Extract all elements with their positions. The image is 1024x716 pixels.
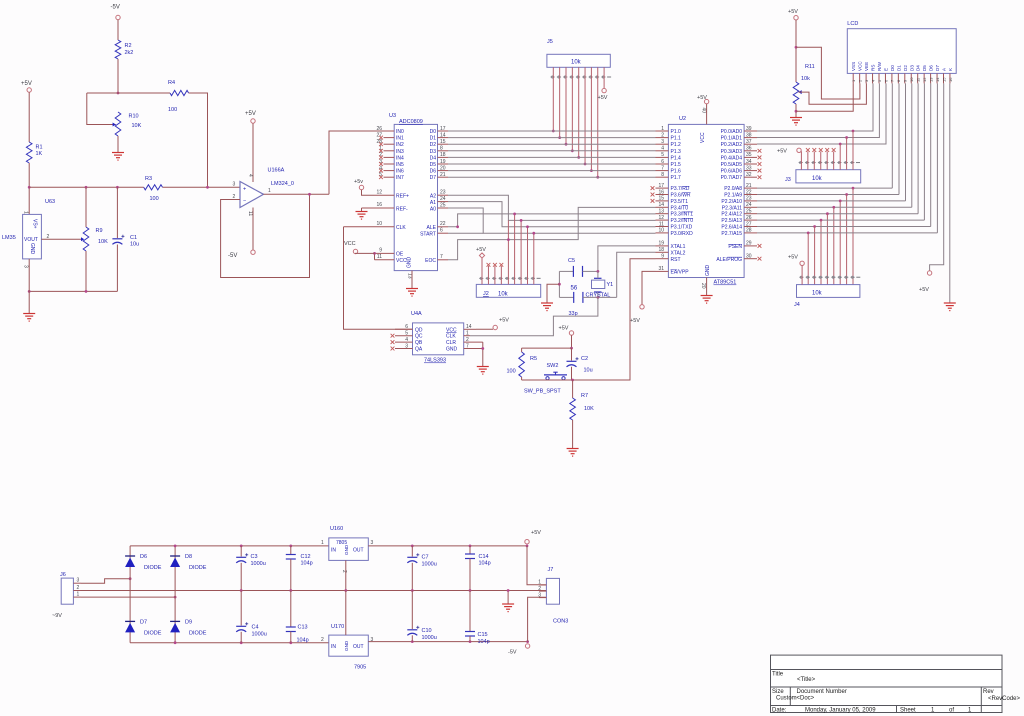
wire +5V to R1 xyxy=(28,92,30,142)
J3 pin6 no connect xyxy=(833,152,835,170)
ground at REF- xyxy=(361,208,363,211)
svg-text:1: 1 xyxy=(23,211,29,214)
svg-text:30: 30 xyxy=(746,254,752,260)
svg-text:CLK: CLK xyxy=(396,225,406,231)
IC U3 ADC0809 box xyxy=(394,124,437,270)
wire +5V rail xyxy=(368,545,527,547)
svg-text:C3: C3 xyxy=(251,554,258,560)
svg-text:D5: D5 xyxy=(430,162,437,168)
svg-text:J2: J2 xyxy=(483,291,489,297)
svg-text:D7: D7 xyxy=(430,175,437,181)
svg-text:8: 8 xyxy=(661,172,664,178)
svg-text:E: E xyxy=(883,68,888,71)
svg-text:P0.0/AD0: P0.0/AD0 xyxy=(721,129,743,135)
resistor network J4 box xyxy=(797,285,860,298)
U2 pin 19 XTAL1 xyxy=(656,245,669,247)
svg-text:VCC: VCC xyxy=(858,61,863,71)
svg-text:CLK: CLK xyxy=(446,334,456,340)
svg-text:+5V: +5V xyxy=(476,247,486,253)
svg-text:14: 14 xyxy=(440,132,446,138)
ADC pin 19 D5 xyxy=(438,163,449,165)
diode D6 xyxy=(125,558,135,568)
svg-text:15: 15 xyxy=(440,139,446,145)
U2 pin 6 P1.5 xyxy=(656,163,669,165)
svg-text:10k: 10k xyxy=(571,60,582,66)
svg-text:1: 1 xyxy=(77,592,80,598)
U2 pin 5 P1.4 xyxy=(656,156,669,158)
U2 pin 17 P3.7/RD xyxy=(656,187,669,189)
svg-text:A2: A2 xyxy=(430,194,436,200)
wire XTAL2 riser xyxy=(617,252,656,297)
ADC pin 9 OE / pin 11 VCC xyxy=(375,252,395,254)
svg-text:39: 39 xyxy=(746,126,752,132)
sensor U63 LM35 xyxy=(23,214,42,259)
ADC pin 8 D3 xyxy=(438,150,449,152)
svg-text:+5V: +5V xyxy=(788,9,798,15)
svg-text:15: 15 xyxy=(658,196,664,202)
svg-text:11: 11 xyxy=(247,211,253,216)
U4A pin 14 VCC xyxy=(464,328,476,330)
wire R11 wiper to LCD VEE pin3 xyxy=(799,83,867,104)
svg-text:U4A: U4A xyxy=(411,311,422,317)
wire J5 pin 2 to P1.1 row xyxy=(559,67,561,137)
svg-text:EA/VPP: EA/VPP xyxy=(671,270,690,276)
svg-text:+5V: +5V xyxy=(531,530,541,536)
svg-text:2: 2 xyxy=(77,585,80,591)
svg-text:D1: D1 xyxy=(896,65,901,71)
svg-text:1000u: 1000u xyxy=(252,632,267,638)
potentiometer R10 xyxy=(115,112,121,136)
U2 pin 33 P0.6/AD6 xyxy=(744,170,757,172)
svg-text:LCD: LCD xyxy=(847,21,858,27)
capacitor C4 xyxy=(240,591,242,626)
ADC pin 22 ALE xyxy=(438,226,449,228)
wire J3 pin7 riser to P0.2 xyxy=(839,144,841,170)
svg-text:RS: RS xyxy=(871,65,876,71)
J3 pin number marks xyxy=(799,162,803,164)
wire XTAL1 riser xyxy=(598,246,656,272)
wire op-amp output xyxy=(264,193,330,195)
svg-text:LM324_0: LM324_0 xyxy=(271,181,294,187)
svg-text:GND: GND xyxy=(446,347,458,353)
U2 pin 15 P3.5/T1 xyxy=(656,200,669,202)
wire R7 to ground xyxy=(572,420,574,448)
wire J5 pin 8 to P1.7 row xyxy=(597,67,599,177)
svg-text:VCC: VCC xyxy=(446,327,457,333)
wire P2.5 row to LCD D5 and J4 xyxy=(757,219,924,221)
svg-text:35: 35 xyxy=(746,152,752,158)
svg-text:17: 17 xyxy=(440,126,446,132)
U2 pin 18 XTAL2 xyxy=(656,251,669,253)
svg-text:10k: 10k xyxy=(498,292,509,298)
svg-text:14: 14 xyxy=(658,202,664,208)
diode D8 xyxy=(170,558,180,568)
svg-text:100: 100 xyxy=(150,196,159,202)
ADC pin 10 CLK xyxy=(344,226,395,228)
svg-text:D0: D0 xyxy=(890,65,895,71)
svg-text:29: 29 xyxy=(746,241,752,247)
svg-text:1: 1 xyxy=(321,540,324,546)
U4A pin 7 GND xyxy=(464,348,483,350)
svg-text:100: 100 xyxy=(507,369,516,375)
resistor R3 xyxy=(144,185,163,190)
svg-text:7: 7 xyxy=(661,165,664,171)
svg-text:56: 56 xyxy=(571,286,578,292)
wire ground tap xyxy=(547,284,559,302)
svg-text:R9: R9 xyxy=(96,228,103,234)
svg-text:D3: D3 xyxy=(909,65,914,71)
wire ADC ALE to P3.3 route xyxy=(448,214,656,227)
wire P2.7 row to LCD D7 and J4 xyxy=(757,232,937,234)
svg-text:GND: GND xyxy=(344,544,349,555)
svg-text:104p: 104p xyxy=(297,638,309,644)
U2 pin 11 P3.1/TXD xyxy=(656,226,669,228)
J2 pin4 no connect xyxy=(500,266,502,284)
svg-text:A0: A0 xyxy=(430,206,436,212)
power +5V at EA xyxy=(640,305,644,309)
wire 7905 GND to center rail xyxy=(345,591,347,636)
U2 pin 36 P0.3/AD3 xyxy=(744,150,757,152)
ground under R11 xyxy=(790,117,802,119)
wire R1 to U63 pin1 xyxy=(28,163,30,214)
svg-text:OUT: OUT xyxy=(353,548,364,554)
resistor R5 xyxy=(521,348,523,352)
svg-text:37: 37 xyxy=(746,139,752,145)
wire OE/VCC join xyxy=(374,253,376,259)
svg-text:C1: C1 xyxy=(130,235,137,241)
svg-text:36: 36 xyxy=(746,146,752,152)
ADC pin 25 A0 xyxy=(438,207,449,209)
svg-text:D2: D2 xyxy=(903,65,908,71)
ADC pin 18 D4 xyxy=(438,156,449,158)
wire cap left common xyxy=(558,271,560,297)
svg-text:6: 6 xyxy=(405,324,408,330)
svg-text:10u: 10u xyxy=(130,242,139,248)
wire R4 left segment xyxy=(87,92,170,94)
svg-text:PSEN: PSEN xyxy=(728,244,742,250)
IC U4A 74LS393 box xyxy=(413,323,464,355)
ADC pin 7 EOC xyxy=(438,259,449,261)
svg-text:C15: C15 xyxy=(478,632,488,638)
U2 pin 10 P3.0/RXD xyxy=(656,232,669,234)
svg-text:6: 6 xyxy=(440,227,443,233)
J3 pin5 no connect xyxy=(826,152,828,170)
J2 pin2 no connect xyxy=(487,266,489,284)
regulator U170 7905 xyxy=(329,635,369,656)
svg-text:U166A: U166A xyxy=(268,168,285,174)
svg-text:ALE: ALE xyxy=(427,225,437,231)
svg-text:D6: D6 xyxy=(430,169,437,175)
svg-text:16: 16 xyxy=(376,202,382,208)
capacitor C1 xyxy=(116,187,118,238)
wire reset bottom rail xyxy=(522,379,630,381)
ADC pin 1 IN3 xyxy=(384,150,395,152)
svg-text:D6: D6 xyxy=(140,554,147,560)
svg-text:R5: R5 xyxy=(530,356,537,362)
svg-text:10u: 10u xyxy=(584,368,593,374)
svg-text:12: 12 xyxy=(376,190,382,196)
svg-text:C4: C4 xyxy=(252,625,259,631)
diode D9 xyxy=(170,623,180,633)
U2 pin 12 P3.2/INT0 xyxy=(656,219,669,221)
ground under ADC xyxy=(406,288,418,290)
wire J5 pin 5 to P1.4 row xyxy=(578,67,580,157)
wire ADC D1 to U2 P1.1 xyxy=(448,137,656,139)
svg-text:A1: A1 xyxy=(430,200,436,206)
svg-text:+5V: +5V xyxy=(21,81,32,87)
svg-text:GND: GND xyxy=(29,243,35,255)
U2 pin 9 RST xyxy=(656,258,669,260)
svg-text:1: 1 xyxy=(538,580,541,586)
svg-text:-5V: -5V xyxy=(228,253,237,259)
svg-text:ALE/PROG: ALE/PROG xyxy=(716,257,742,263)
resistor R4 xyxy=(170,90,189,95)
svg-text:P0.7/AD7: P0.7/AD7 xyxy=(721,175,743,181)
wire R9 bottom xyxy=(85,251,87,291)
wire ADC D4 to U2 P1.4 xyxy=(448,156,656,158)
svg-text:DIODE: DIODE xyxy=(144,565,162,571)
U2 pin 32 P0.7/AD7 xyxy=(744,176,757,178)
svg-text:<Doc>: <Doc> xyxy=(797,696,815,702)
wire P0.0 row to LCD RS xyxy=(757,83,873,131)
wire -raw rail bottom xyxy=(130,642,329,644)
U2 pin 7 P1.6 xyxy=(656,170,669,172)
ADC pin 12 REF+ xyxy=(374,194,394,196)
wire LCD K pin16 to ground xyxy=(949,83,951,302)
wire crystal clock to counter CLK xyxy=(470,297,598,335)
U4A pin 5 QC xyxy=(395,335,413,337)
svg-text:15: 15 xyxy=(941,77,946,82)
svg-text:32: 32 xyxy=(746,172,752,178)
svg-text:3: 3 xyxy=(661,139,664,145)
svg-text:C2: C2 xyxy=(581,356,588,362)
svg-text:+: + xyxy=(243,187,246,193)
resistor R7 xyxy=(572,380,574,398)
ADC pin 17 D0 xyxy=(438,130,449,132)
svg-text:DIODE: DIODE xyxy=(144,631,162,637)
wire rectifier left column xyxy=(129,546,131,643)
svg-text:1: 1 xyxy=(268,188,271,194)
svg-text:24: 24 xyxy=(746,202,752,208)
svg-text:P0.3/AD3: P0.3/AD3 xyxy=(721,149,743,155)
svg-text:P1.0: P1.0 xyxy=(671,129,682,135)
wire J6 pin1 to rectifier node D8/D9 xyxy=(81,596,175,598)
svg-text:P1.7: P1.7 xyxy=(671,175,682,181)
svg-text:2: 2 xyxy=(321,637,324,643)
wire +5V to op-amp pin4 xyxy=(252,123,254,182)
U2 pin 34 P0.5/AD5 xyxy=(744,163,757,165)
svg-text:D5: D5 xyxy=(922,65,927,71)
wire ADC D0 to U2 P1.0 xyxy=(448,130,656,132)
J2 pin3 no connect xyxy=(494,266,496,284)
wire RST to reset network xyxy=(573,259,656,380)
ADC pin 24 A1 xyxy=(438,201,449,203)
wire output to ADC IN0 xyxy=(329,131,384,194)
svg-text:VSS: VSS xyxy=(851,62,856,71)
svg-text:3: 3 xyxy=(371,540,374,546)
svg-text:14: 14 xyxy=(935,77,940,82)
wire J5 pin 4 to P1.3 row xyxy=(571,67,573,151)
svg-text:QD: QD xyxy=(415,327,423,333)
svg-text:R10: R10 xyxy=(129,114,139,120)
svg-text:P0.4/AD4: P0.4/AD4 xyxy=(721,155,743,161)
svg-text:Title: Title xyxy=(772,672,784,678)
svg-text:11: 11 xyxy=(659,221,664,227)
svg-text:17: 17 xyxy=(658,183,664,189)
svg-text:P2.2/A10: P2.2/A10 xyxy=(721,199,742,205)
svg-text:+5V: +5V xyxy=(919,287,929,293)
J5 pin number marks xyxy=(551,76,555,78)
svg-text:ADC0809: ADC0809 xyxy=(399,119,423,125)
svg-text:+5V: +5V xyxy=(630,318,640,324)
svg-text:+5V: +5V xyxy=(245,111,256,117)
svg-text:2: 2 xyxy=(661,132,664,138)
U2 pin 35 P0.4/AD4 xyxy=(744,156,757,158)
svg-text:GND: GND xyxy=(407,257,413,269)
wire ADC GND to ground xyxy=(411,271,413,288)
capacitor C12 xyxy=(290,546,292,555)
svg-text:1000u: 1000u xyxy=(422,562,437,568)
wire J2 pin5 riser xyxy=(507,220,509,284)
svg-text:QC: QC xyxy=(415,334,423,340)
U4A pin 6 QD xyxy=(395,328,413,330)
wire P0.1 row to LCD R/W xyxy=(757,83,879,137)
svg-text:SW2: SW2 xyxy=(547,363,559,369)
svg-text:XTAL1: XTAL1 xyxy=(671,244,686,250)
capacitor C2 xyxy=(571,348,573,360)
svg-text:-5V: -5V xyxy=(111,5,120,11)
svg-text:D1: D1 xyxy=(430,136,437,142)
resistor network J2 box xyxy=(476,284,540,297)
ground under U63 xyxy=(23,313,35,315)
svg-text:IN6: IN6 xyxy=(396,169,404,175)
wire J5 pin 9 to +5V xyxy=(603,67,605,88)
svg-text:100: 100 xyxy=(168,107,177,113)
wire ADC D6 to U2 P1.6 xyxy=(448,170,656,172)
U2 pin 28 P2.7/A15 xyxy=(744,232,757,234)
U2 pin 25 P2.4/A12 xyxy=(744,213,757,215)
wire +raw rail top xyxy=(130,545,329,547)
svg-text:14: 14 xyxy=(466,324,472,330)
svg-text:3: 3 xyxy=(77,578,80,584)
svg-text:31: 31 xyxy=(658,266,664,272)
wire reset top rail xyxy=(522,347,572,349)
J3 pin3 no connect xyxy=(813,152,815,170)
svg-text:Sheet: Sheet xyxy=(900,708,916,714)
svg-text:VCC: VCC xyxy=(344,241,356,247)
wire ADC START join xyxy=(448,232,483,234)
ADC pin 6 START xyxy=(438,232,449,234)
ground at crystal caps xyxy=(541,302,553,304)
svg-text:Custom: Custom xyxy=(776,696,797,702)
svg-text:D9: D9 xyxy=(185,620,192,626)
wire ADC D3 to U2 P1.3 xyxy=(448,150,656,152)
svg-text:18: 18 xyxy=(440,152,446,158)
ADC pin 4 IN6 xyxy=(384,170,395,172)
U2 pin 37 P0.2/AD2 xyxy=(744,143,757,145)
svg-text:C14: C14 xyxy=(479,554,489,560)
wire J3 pin9 riser to P0.0 xyxy=(852,131,854,170)
svg-text:J6: J6 xyxy=(60,572,66,578)
svg-text:IN: IN xyxy=(331,644,336,650)
ADC pin 21 D7 xyxy=(438,176,449,178)
svg-text:−: − xyxy=(243,199,246,205)
wire ADC A0 to START/P3.0 route xyxy=(448,208,656,233)
svg-text:P2.3/A11: P2.3/A11 xyxy=(722,205,742,211)
svg-text:P2.6/A14: P2.6/A14 xyxy=(721,225,742,231)
ADC pin 23 A2 xyxy=(438,194,449,196)
U2 pin 14 P3.4/T0 xyxy=(656,206,669,208)
svg-text:2: 2 xyxy=(466,337,469,343)
svg-text:OE: OE xyxy=(396,252,404,258)
svg-text:VEE: VEE xyxy=(864,62,869,71)
U2 pin 31 EA/VPP xyxy=(656,270,669,272)
svg-text:10k: 10k xyxy=(812,291,823,297)
title block dividers xyxy=(789,687,791,706)
svg-text:R11: R11 xyxy=(805,64,815,70)
wire U63 pin3 to ground xyxy=(28,259,30,313)
ground under R7 xyxy=(567,448,579,450)
svg-text:20: 20 xyxy=(700,283,706,289)
U2 pin 21 P2.0/A8 xyxy=(744,187,757,189)
svg-text:33: 33 xyxy=(746,165,752,171)
svg-text:IN7: IN7 xyxy=(396,175,404,181)
svg-text:1K: 1K xyxy=(36,151,43,157)
J2 pin number marks xyxy=(479,277,483,279)
svg-text:13: 13 xyxy=(658,209,664,215)
svg-text:7905: 7905 xyxy=(354,665,366,671)
svg-text:D4: D4 xyxy=(430,155,437,161)
svg-text:R2: R2 xyxy=(125,43,132,49)
svg-text:C13: C13 xyxy=(298,625,308,631)
svg-text:6: 6 xyxy=(661,159,664,165)
svg-text:D4: D4 xyxy=(916,65,921,71)
svg-text:<Title>: <Title> xyxy=(797,677,816,683)
svg-text:P3.3/INT1: P3.3/INT1 xyxy=(671,212,694,218)
wire ADC D7 to U2 P1.7 xyxy=(448,176,656,178)
J4 pin number marks xyxy=(799,276,803,278)
wire analog bottom rail xyxy=(29,290,117,292)
ADC pin 20 D6 xyxy=(438,170,449,172)
wire J2 pin8 riser xyxy=(527,227,529,285)
wire J6 pin3 to rectifier node D6/D7 xyxy=(81,579,130,584)
svg-text:-5V: -5V xyxy=(508,650,517,656)
svg-text:P1.2: P1.2 xyxy=(671,142,682,148)
svg-text:23: 23 xyxy=(440,190,446,196)
svg-text:U63: U63 xyxy=(45,199,55,205)
wire P0.2 row to LCD E xyxy=(757,83,886,144)
svg-text:40: 40 xyxy=(701,108,707,114)
node R2/R4/R10 xyxy=(117,92,120,95)
ground at LCD K xyxy=(944,302,956,304)
svg-text:P0.1/AD1: P0.1/AD1 xyxy=(721,136,743,142)
ADC pin 28 IN2 xyxy=(384,143,395,145)
svg-text:IN3: IN3 xyxy=(396,149,404,155)
svg-text:CON3: CON3 xyxy=(553,619,568,625)
svg-text:SW_PB_SPST: SW_PB_SPST xyxy=(524,389,561,395)
wire J5 pin 1 to P1.0 row xyxy=(552,67,554,131)
svg-text:2: 2 xyxy=(538,586,541,592)
svg-text:23: 23 xyxy=(746,196,752,202)
wire -5V to R2 xyxy=(117,20,119,40)
svg-text:19: 19 xyxy=(440,159,446,165)
resistor R1 xyxy=(26,142,32,163)
power +5V at J5 xyxy=(602,88,606,92)
wire J5 pin 7 to P1.6 row xyxy=(590,67,592,170)
svg-text:1000u: 1000u xyxy=(422,635,437,641)
svg-text:4: 4 xyxy=(405,337,408,343)
svg-text:QA: QA xyxy=(415,347,423,353)
